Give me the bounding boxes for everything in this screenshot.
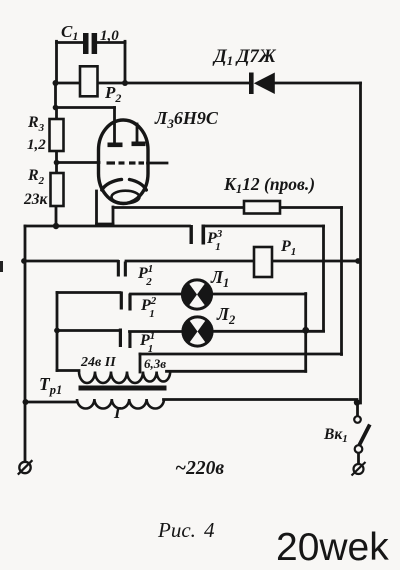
wire row C left [57, 291, 120, 294]
wire vertical x57 (rows C,D to winding) [56, 293, 59, 371]
diode D1 cathode bar [249, 73, 254, 95]
wire row A left (to P13 contact) [25, 225, 190, 228]
transformer primary winding I [77, 399, 164, 409]
tube base ellipse [112, 191, 140, 204]
wire row B right through P1 box to right vertical [126, 260, 358, 263]
tube anode bar left [108, 143, 123, 148]
wire switch bottom stub [357, 453, 360, 464]
wire 371 row (lamps to winding right) [167, 370, 306, 373]
svg-text:6,3в: 6,3в [144, 356, 166, 371]
wire C1 loop top right [97, 41, 125, 44]
junction bottom row / switch [354, 399, 360, 405]
plug terminal right [352, 462, 366, 476]
svg-text:Д1 Д7Ж: Д1 Д7Ж [212, 47, 277, 68]
wire row D middle [130, 330, 184, 333]
wire 6.3v tap row [140, 353, 342, 356]
wire row C middle [131, 293, 183, 296]
contact P1-2 bars [120, 292, 132, 311]
wire switch top stub [356, 403, 359, 416]
wire R2 bottom lead [55, 206, 58, 226]
wire C1 loop top left [57, 41, 84, 44]
wire right anode lead [136, 124, 139, 143]
junction anode node [53, 105, 59, 111]
switch Vk1 upper terminal [354, 416, 361, 423]
tube grid dashes [107, 161, 145, 164]
switch Vk1 lever [359, 425, 370, 447]
wire vertical x341 (K1 to 6.3v row) [340, 208, 343, 355]
tube anode bar right [132, 142, 146, 147]
lamp L2 [183, 317, 212, 346]
wire cathode lead horizontal [97, 223, 114, 226]
junction row D on x57 vertical [54, 328, 60, 334]
switch Vk1 lower terminal [355, 445, 363, 453]
wire tap vertical [139, 354, 142, 372]
svg-text:Л36Н9С: Л36Н9С [154, 108, 219, 131]
junction row B on left vertical [21, 258, 27, 264]
contact P1-1 bars [119, 329, 132, 349]
edge smudge [0, 261, 3, 272]
wire grid lead right [148, 162, 168, 165]
wire row B left [24, 260, 118, 263]
capacitor C1 plates [83, 33, 97, 54]
wire grid lead left [57, 161, 100, 164]
wire K1 row right [280, 206, 342, 209]
wire anode top line [56, 106, 115, 109]
tube cathode arc [102, 179, 147, 190]
svg-text:1,0: 1,0 [100, 28, 119, 44]
relay coil P2 box [80, 66, 98, 96]
svg-text:23к: 23к [23, 191, 49, 208]
wire P2 bottom to anode node [54, 83, 57, 108]
wire R3 top lead [55, 108, 58, 120]
junction primary lead on left vertical [23, 399, 29, 405]
tube L3 envelope [99, 120, 149, 204]
svg-text:~220в: ~220в [175, 458, 224, 479]
svg-text:24в II: 24в II [80, 355, 116, 370]
lamp L1 [182, 280, 211, 309]
junction row B on right vertical [355, 258, 361, 264]
wire main top line to diode [56, 82, 250, 85]
wire K1 row left [113, 206, 244, 209]
contact P2-1 bars [117, 260, 127, 277]
contact P1-3 bars [190, 225, 206, 245]
wire left main vertical [24, 226, 27, 462]
wire row D left [57, 329, 119, 332]
wire left anode lead [113, 108, 116, 145]
junction grid / R3-R2 node [54, 160, 60, 166]
relay coil P1 box [254, 247, 272, 277]
wire row C right [212, 293, 306, 296]
wire vertical x323 (row A corner down to lamp junction) [322, 226, 325, 331]
svg-text:4: 4 [204, 518, 215, 542]
diode D1 triangle [254, 73, 275, 95]
wire bottom row left (primary lead) [26, 401, 78, 404]
relay coil K1 box [244, 201, 280, 214]
svg-text:1,2: 1,2 [27, 137, 46, 153]
wire R3-R2 link [55, 151, 58, 173]
resistor R2 [51, 173, 64, 206]
transformer secondary winding II + 6.3v [79, 372, 170, 384]
resistor R3 [50, 119, 64, 151]
wire C1 loop left vertical [55, 41, 58, 83]
junction lamps common node [302, 327, 309, 334]
plug terminal left [18, 460, 33, 474]
svg-text:Рис.: Рис. [157, 518, 196, 542]
svg-text:20wek: 20wek [276, 526, 389, 569]
wire C1 loop right vertical [124, 41, 127, 83]
wire vertical x305 (lamp1 to 371 row) [304, 294, 307, 372]
wire diode to top-right corner [275, 82, 361, 85]
wire right main vertical [359, 83, 362, 403]
wire row A right (P13 to corner) [203, 225, 324, 228]
transformer Tr1 core [79, 386, 167, 391]
junction R2 bottom on row A [53, 223, 59, 229]
wire bottom row right [164, 398, 358, 401]
wire cathode stub up [112, 207, 115, 224]
wire cathode lead down [95, 191, 98, 224]
wire winding II left lead [57, 369, 79, 372]
wire row D right [212, 330, 324, 333]
junction C1/P2 left [53, 80, 59, 86]
junction C1/P2 right [122, 80, 128, 86]
